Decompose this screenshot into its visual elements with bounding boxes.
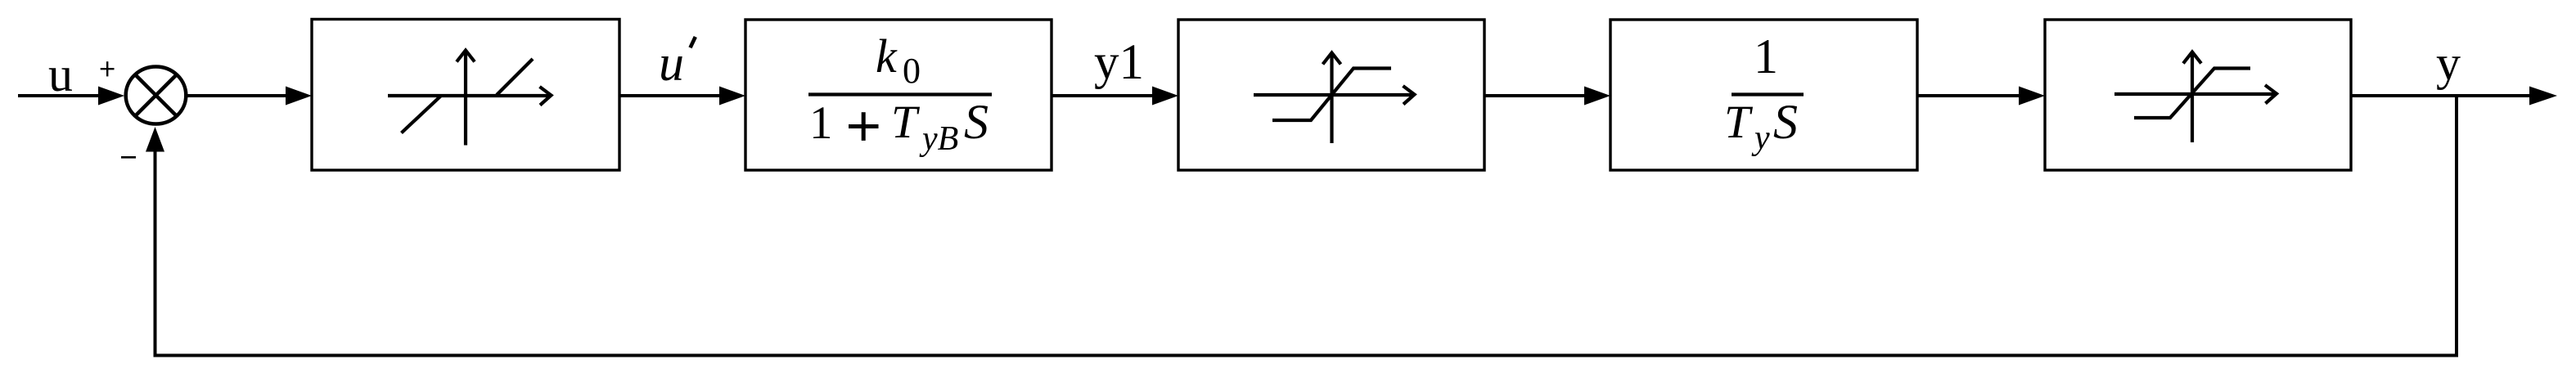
output arrowhead	[2529, 87, 2557, 106]
block 2 value k0/(1+TyBS)	[808, 92, 992, 96]
svg-text:S: S	[1773, 95, 1798, 149]
svg-text:y: y	[1751, 119, 1770, 157]
svg-text:T: T	[891, 97, 921, 148]
arrowhead into summing junction	[98, 87, 124, 106]
wire summing junction to block 1	[187, 94, 288, 97]
svg-text:1: 1	[1754, 29, 1778, 83]
wire block 1 to block 2	[619, 94, 722, 97]
svg-text:u: u	[48, 47, 73, 101]
wire input u	[18, 94, 103, 97]
minus sign at summing junction	[121, 156, 136, 159]
wire block 4 to block 5	[1917, 94, 2021, 97]
arrowhead into block 3	[1152, 87, 1178, 106]
dead-zone symbol axes	[388, 51, 552, 146]
wire block 5 to output	[2351, 94, 2533, 97]
svg-text:1: 1	[809, 97, 833, 149]
block 4 value 1/(TyS)	[1732, 92, 1804, 96]
block 4 integrator box	[1610, 20, 1917, 170]
arrowhead into summing junction bottom	[146, 127, 164, 152]
saturation curve	[2134, 69, 2250, 119]
svg-text:u: u	[659, 36, 684, 92]
dead-zone segments	[402, 96, 442, 133]
svg-text:y1: y1	[1094, 35, 1144, 90]
arrowhead into block 2	[719, 87, 745, 106]
feedback wire down from branch	[2455, 96, 2458, 357]
svg-text:k: k	[876, 29, 898, 83]
arrowhead into block 5	[2019, 87, 2045, 106]
svg-text:T: T	[1724, 97, 1754, 148]
svg-text:S: S	[964, 95, 989, 149]
wire block 3 to block 4	[1484, 94, 1587, 97]
svg-text:yB: yB	[919, 120, 958, 158]
block 3 saturation box	[1178, 20, 1484, 170]
saturation symbol axes	[2114, 52, 2277, 143]
arrowhead into block 1	[286, 87, 312, 106]
block 1 dead-zone box	[312, 20, 619, 171]
plus sign at summing junction	[101, 61, 115, 76]
feedback wire up to summing junction	[154, 150, 157, 357]
arrowhead into block 4	[1584, 87, 1610, 106]
saturation curve	[1272, 69, 1391, 121]
block 5 saturation box	[2045, 20, 2351, 170]
svg-text:y: y	[2436, 36, 2461, 90]
feedback wire bottom	[154, 354, 2459, 357]
svg-text:0: 0	[903, 51, 921, 91]
block 2 transfer function box	[745, 20, 1052, 170]
wire block 2 to block 3	[1052, 94, 1155, 97]
summing junction	[126, 67, 187, 124]
saturation symbol axes	[1254, 53, 1415, 144]
